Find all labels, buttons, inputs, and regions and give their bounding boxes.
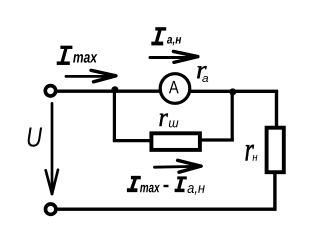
label I_max - I_a,n (bottom): second letter I — [175, 178, 187, 191]
label r_n: letter r — [245, 145, 253, 161]
terminal: input top-left — [45, 86, 55, 96]
label r_sh: letter r — [159, 114, 167, 126]
wire: top conductor, left segment (terminal to ammeter) — [51, 89, 162, 92]
label I_max (top): subscript max — [73, 54, 97, 63]
ammeter A: letter A — [169, 81, 179, 93]
wire: shunt branch left drop — [113, 91, 116, 140]
terminal: input bottom-left — [46, 204, 56, 214]
label I_a,n (top): subscript a,n — [167, 37, 181, 45]
label I_max - I_a,n (bottom): first letter I — [127, 178, 141, 191]
label I_a,n (top): letter I — [151, 29, 166, 44]
resistor r_sh (shunt) — [151, 133, 200, 150]
label r_a: letter r — [197, 66, 206, 78]
resistor r_n (load) — [267, 128, 284, 173]
wire: shunt branch lower-left segment — [113, 139, 152, 142]
current arrow I_max — [66, 70, 116, 82]
label r_sh: subscript sh — [169, 120, 178, 127]
label I_max - I_a,n (bottom): minus sign — [164, 185, 169, 187]
label r_a: subscript a — [202, 76, 208, 82]
wire: shunt branch right riser — [231, 91, 234, 141]
ammeter A: meter circle — [160, 74, 190, 104]
wire: top conductor, right segment and right-side drop to load resistor — [188, 91, 277, 127]
label r_n: subscript n — [252, 155, 257, 161]
label I_max - I_a,n (bottom): subscript a,n — [187, 185, 204, 195]
wire: right-side lower riser and bottom conductor — [51, 173, 275, 210]
voltage arrow U — [46, 103, 58, 194]
label U — [28, 127, 42, 146]
current arrow I_max - I_a,n (bottom) — [155, 160, 202, 172]
label I_max (top): letter I — [57, 47, 73, 63]
label I_max - I_a,n (bottom): subscript max — [140, 185, 160, 193]
current arrow I_a,n — [150, 51, 198, 62]
node junction right — [229, 88, 236, 95]
wire: shunt branch lower-right segment — [200, 138, 234, 141]
node junction left — [111, 86, 118, 93]
